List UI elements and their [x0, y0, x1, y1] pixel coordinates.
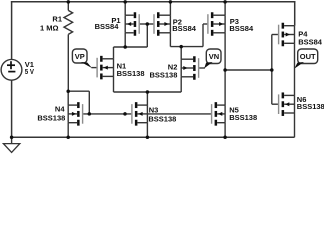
transistor P3 BSS84 (PMOS): [207, 14, 208, 34]
svg-text:R1: R1: [52, 15, 62, 24]
junction N4 source / rail: [66, 136, 70, 140]
wire P3 drain to N5 drain: [224, 33, 226, 105]
wire bias line N4 gate to N3 gate: [83, 113, 131, 115]
junction N3 source / rail: [146, 136, 150, 140]
transistor N5 BSS138 (NMOS): [211, 104, 212, 124]
junction P1 / top rail: [123, 0, 127, 4]
junction R1 / top rail: [67, 0, 71, 4]
wire N3 drain up: [146, 92, 148, 105]
voltage source V1: [1, 59, 22, 80]
transistor P2 BSS84 (PMOS): [153, 14, 154, 34]
svg-text:VP: VP: [75, 52, 85, 61]
junction R1 / N4 drain: [66, 89, 70, 93]
wire P3 source to top rail: [224, 2, 226, 16]
wire left rail upper: [11, 1, 13, 59]
wire output node P4 drain to N6 drain: [294, 43, 296, 95]
wire P1 drain node horizontal: [114, 46, 148, 48]
transistor N3 BSS138 (NMOS): [131, 104, 132, 124]
wire P4 gate lead: [272, 34, 278, 36]
svg-text:N4: N4: [55, 104, 65, 113]
wire VP to N1 gate: [91, 67, 96, 69]
wire N6 source to rail: [294, 113, 296, 137]
wire left rail lower: [11, 80, 13, 137]
wire P3 gate lead: [203, 23, 207, 25]
junction ground / bottom rail: [10, 136, 14, 140]
wire from R1 node right: [68, 90, 89, 92]
svg-text:BSS138: BSS138: [149, 70, 177, 79]
junction bias line node: [123, 112, 127, 116]
transistor N1 BSS138 (NMOS): [96, 58, 97, 78]
wire down to bias line: [88, 91, 90, 114]
transistor P4 BSS84 (PMOS): [278, 25, 279, 45]
junction P2 / top rail: [169, 0, 173, 4]
wire P2 drain down: [169, 33, 171, 47]
wire N1 drain up: [113, 47, 115, 59]
wire N4 drain from R1 node: [67, 91, 69, 105]
junction N5 source / rail: [223, 136, 227, 140]
wire N6 gate lead: [272, 103, 278, 105]
transistor N4 BSS138 (NMOS): [82, 104, 83, 124]
wire mid node to P4/N6 gates: [225, 69, 272, 71]
svg-text:BSS138: BSS138: [117, 69, 145, 78]
node label OUT: [298, 49, 318, 64]
svg-text:BSS84: BSS84: [298, 37, 323, 46]
wire N2 gate to VN: [199, 67, 205, 69]
wire gates down to P1 drain node: [146, 24, 148, 47]
svg-text:BSS84: BSS84: [172, 24, 197, 33]
node label VP: [72, 49, 87, 63]
svg-text:N3: N3: [149, 106, 159, 115]
wire right rail to P4 source: [294, 1, 296, 26]
svg-text:BSS138: BSS138: [297, 102, 324, 111]
svg-text:BSS138: BSS138: [229, 113, 257, 122]
wire N3 source to rail: [146, 123, 148, 138]
svg-text:1 MΩ: 1 MΩ: [40, 23, 59, 32]
junction P1 drain node: [123, 45, 127, 49]
wire N4 source to rail: [67, 123, 69, 138]
wire N1 source down: [113, 76, 115, 92]
wire P2 drain horizontal: [170, 46, 203, 48]
svg-text:BSS84: BSS84: [229, 24, 254, 33]
junction P1-P2 gates: [146, 22, 150, 26]
wire N5 source to rail: [224, 123, 226, 138]
junction tail / N3 drain: [146, 90, 150, 94]
transistor N2 BSS138 (NMOS): [198, 58, 199, 78]
transistor P1 BSS84 (PMOS): [139, 14, 140, 34]
resistor R1: [67, 2, 69, 11]
svg-text:OUT: OUT: [300, 52, 316, 61]
svg-text:5 V: 5 V: [25, 67, 34, 76]
svg-text:BSS138: BSS138: [37, 113, 65, 122]
wire tail node: [114, 91, 182, 93]
junction P4/N6 gate node: [270, 68, 274, 72]
wire bottom rail: [11, 136, 295, 138]
wire P1 gate to P2 gate: [140, 23, 153, 25]
wire up to P3 gate: [202, 24, 204, 47]
wire bias line N3 to N5 gate: [147, 113, 211, 115]
wire P1 source to top rail: [124, 2, 126, 16]
svg-text:VN: VN: [209, 52, 219, 61]
svg-text:BSS138: BSS138: [148, 115, 176, 124]
wire P2 source to top rail: [169, 2, 171, 16]
wire N2 drain up: [180, 47, 182, 60]
transistor N6 BSS138 (NMOS): [278, 94, 279, 114]
svg-text:BSS84: BSS84: [95, 22, 120, 31]
junction N5 drain node: [223, 68, 227, 72]
wire N2 source down: [180, 77, 182, 92]
ground: [11, 137, 13, 143]
junction N4 gate bias tee: [88, 112, 92, 116]
wire top rail: [11, 1, 296, 3]
junction P3 / top rail: [223, 0, 227, 4]
junction N2 drain node: [179, 45, 183, 49]
node label VN: [206, 49, 221, 64]
wire P1 drain down: [124, 33, 126, 47]
wire P4 gate to N6 gate vertical: [271, 35, 273, 105]
